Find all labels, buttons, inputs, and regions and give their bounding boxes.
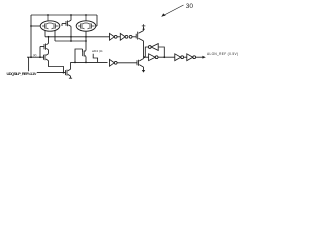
wire left pair drain leads bbox=[44, 31, 46, 37]
ground Q2 bbox=[142, 70, 145, 73]
node MR gate col bbox=[74, 62, 76, 64]
wire U3 to Q2 bbox=[117, 62, 137, 64]
inverter U1 bbox=[110, 33, 118, 40]
inverter U4 forward bbox=[149, 54, 158, 61]
inverter U3 lower bbox=[110, 59, 118, 66]
transistor T2 tail bbox=[66, 69, 71, 76]
wire output bbox=[196, 56, 204, 58]
node rail-left pair bbox=[47, 14, 49, 16]
wire U4 out bbox=[158, 56, 175, 58]
svg-text:wD4 (3•: wD4 (3• bbox=[92, 49, 103, 53]
wire center transistor source up bbox=[70, 15, 72, 20]
ground bbox=[69, 77, 72, 79]
wire left pair side stub bbox=[31, 25, 40, 27]
wire U6-U7 bbox=[184, 56, 187, 58]
node T1 source to input rail bbox=[63, 72, 65, 74]
output arrowhead bbox=[202, 56, 205, 59]
wire Q1 source to supply bbox=[143, 27, 145, 31]
wire Q2 source down bbox=[143, 67, 145, 70]
inverter U6 bbox=[175, 54, 184, 61]
wire T2 drain up bbox=[70, 62, 72, 69]
transistor MR bbox=[83, 49, 87, 57]
wire left vertical bbox=[30, 15, 32, 57]
node A-center bbox=[70, 36, 72, 38]
node A-ML bbox=[48, 36, 50, 38]
matched pair circle left bbox=[40, 15, 60, 31]
wire lower output row bbox=[71, 61, 108, 63]
wire latch node row bbox=[144, 56, 149, 58]
wire input riser bbox=[28, 57, 30, 71]
wire ML source down bbox=[48, 50, 50, 54]
wire MR gate routing bbox=[75, 49, 83, 62]
node rail-right pair bbox=[85, 14, 87, 16]
figure reference arrow 30 bbox=[162, 5, 184, 17]
wire latch loop left bbox=[145, 47, 148, 57]
node left vertical join bbox=[30, 56, 32, 58]
wire MR source down bbox=[85, 57, 87, 63]
wire latch loop right bbox=[158, 47, 164, 57]
transistor T1 bbox=[44, 54, 49, 61]
wire top rail VDD bbox=[31, 14, 97, 16]
wire jog bbox=[93, 54, 97, 63]
wire T1 source down then right bbox=[49, 61, 64, 73]
node latch out bbox=[163, 56, 165, 58]
node MR source bbox=[85, 62, 87, 64]
wire U1-U2 bbox=[117, 36, 120, 38]
node gate wire bbox=[39, 56, 41, 58]
transistor center top bbox=[62, 20, 71, 26]
svg-text:ALGN_REF (0.5V): ALGN_REF (0.5V) bbox=[207, 52, 238, 56]
wire Q1 drain down bbox=[143, 41, 145, 57]
wire ML drain up bbox=[48, 37, 50, 44]
wire ML gate bbox=[39, 47, 41, 58]
wire Q2 drain up bbox=[143, 57, 145, 58]
wire input rail bbox=[37, 72, 66, 74]
inverter U7 bbox=[187, 54, 196, 61]
wire right side of rail down to right pair bbox=[96, 15, 98, 26]
wire center transistor drain down bbox=[70, 26, 72, 41]
node B-right bbox=[85, 40, 87, 42]
node supply bbox=[143, 28, 145, 30]
node latch in bbox=[144, 56, 146, 58]
wire to Q1 gate bbox=[132, 36, 136, 38]
wire T2 source down bbox=[70, 76, 72, 78]
svg-text:(2): (2) bbox=[33, 53, 36, 57]
wire MR drain up bbox=[85, 44, 87, 50]
transistor ML bbox=[40, 43, 49, 49]
node stub bbox=[30, 25, 32, 27]
wire gate row bbox=[27, 56, 44, 58]
wire A mid horizontal bbox=[45, 36, 110, 38]
node A-right bbox=[85, 36, 87, 38]
node rail-center bbox=[70, 14, 72, 16]
inverter U5 feedback bbox=[148, 44, 158, 51]
svg-text:UDQS/LP_REF=1.1V: UDQS/LP_REF=1.1V bbox=[7, 71, 37, 76]
inverter U2 bbox=[120, 33, 128, 40]
wire right pair drain lead bbox=[85, 31, 87, 44]
gate bubble Q1 bbox=[129, 35, 132, 38]
node B-center bbox=[70, 40, 72, 42]
wire B lower horizontal bbox=[55, 40, 86, 42]
transistor Q2 pull-down bbox=[137, 59, 142, 66]
transistor Q1 pull-up bbox=[136, 31, 143, 41]
supply plus bbox=[142, 24, 146, 28]
svg-text:30: 30 bbox=[186, 3, 194, 10]
matched pair circle right bbox=[76, 15, 96, 31]
